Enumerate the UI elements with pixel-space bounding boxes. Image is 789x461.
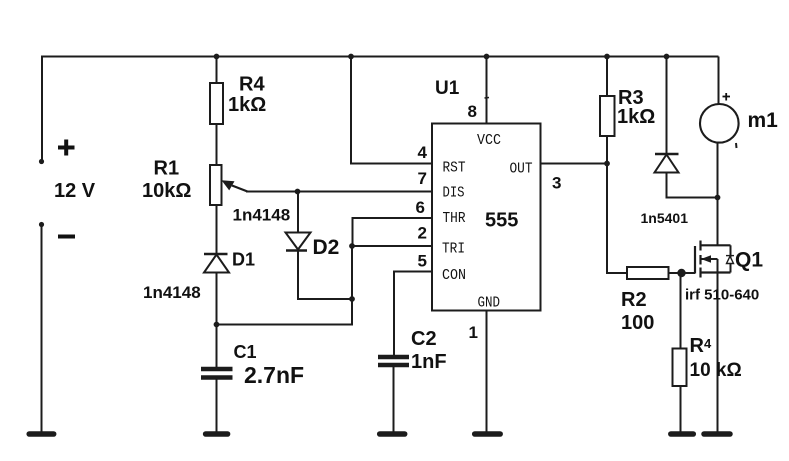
- svg-text:3: 3: [552, 174, 561, 193]
- svg-text:D2: D2: [313, 236, 340, 259]
- wire C1 to ground: [216, 379, 218, 432]
- resistor R4 body: [210, 83, 223, 124]
- svg-text:irf 510-640: irf 510-640: [685, 287, 759, 304]
- svg-text:C1: C1: [234, 342, 257, 362]
- svg-text:1kΩ: 1kΩ: [617, 106, 655, 128]
- wire left rail upper (battery +): [41, 56, 43, 162]
- svg-text:2.7nF: 2.7nF: [244, 362, 304, 388]
- svg-text:100: 100: [621, 312, 654, 334]
- wire R2 to gate: [669, 272, 696, 274]
- node C1 junction: [214, 322, 220, 328]
- svg-text:8: 8: [468, 102, 477, 121]
- potentiometer R1 wiper arrow: [222, 180, 248, 191]
- svg-text:DIS: DIS: [443, 185, 465, 202]
- Q1 body diode glyph: [726, 256, 734, 264]
- pin 8 wire tick: [485, 97, 490, 100]
- wire gate node down to R4b: [680, 273, 682, 349]
- op-amp U1 555 timer box: [432, 124, 541, 311]
- svg-text:THR: THR: [443, 210, 466, 227]
- capacitor C2: [378, 357, 409, 365]
- wire OUT node down to R2: [607, 164, 627, 274]
- node top rail / pin 8 junction: [484, 54, 490, 60]
- ground (R4b): [671, 431, 694, 437]
- svg-text:1nF: 1nF: [411, 351, 447, 373]
- wire RST net from top rail: [351, 57, 432, 164]
- motor m1: [700, 104, 739, 143]
- wire D2 cathode down and right: [298, 251, 352, 300]
- wire R4 bottom to R1: [216, 124, 218, 165]
- ground (C2): [380, 431, 405, 437]
- node top rail / 1n5401 junction: [664, 54, 670, 60]
- wire left rail lower (battery - to ground): [41, 225, 43, 432]
- wire 1n5401 anode to motor bottom: [667, 173, 718, 198]
- wire C2 to ground: [393, 365, 395, 432]
- wire R3 top: [606, 57, 608, 97]
- wire R4 top: [216, 57, 218, 84]
- svg-text:6: 6: [416, 198, 425, 217]
- svg-text:m1: m1: [748, 109, 779, 132]
- ground (C1): [206, 431, 228, 437]
- capacitor C1: [201, 369, 233, 378]
- svg-text:OUT: OUT: [510, 160, 533, 177]
- svg-text:R4: R4: [690, 335, 712, 357]
- potentiometer R1 body: [210, 165, 222, 205]
- wire DIS net (wiper to pin 7): [246, 191, 432, 193]
- node THR/TRI junction: [349, 243, 355, 249]
- node top rail / R4 junction: [214, 54, 220, 60]
- svg-text:U1: U1: [435, 78, 460, 99]
- svg-text:C2: C2: [411, 328, 437, 350]
- wire D2 junction down and left to C1 node: [217, 299, 353, 325]
- wire motor bottom to Q1 drain: [717, 144, 719, 246]
- svg-text:1n4148: 1n4148: [143, 283, 201, 302]
- node D2 bottom junction: [349, 296, 355, 302]
- diode 1n5401: [655, 154, 679, 173]
- node OUT / R3 junction: [604, 161, 610, 167]
- ground (Q1 source): [704, 431, 730, 437]
- wire D1 bottom to C1 node: [216, 273, 218, 326]
- node top rail / RST junction: [348, 54, 354, 60]
- svg-text:Q1: Q1: [735, 249, 763, 272]
- wire CON pin 5 stub: [394, 272, 432, 356]
- svg-text:5: 5: [418, 252, 427, 271]
- wire C1 node to capacitor: [216, 325, 218, 368]
- svg-text:10 kΩ: 10 kΩ: [690, 360, 742, 381]
- node battery - terminal: [39, 222, 44, 227]
- svg-text:R2: R2: [621, 289, 647, 311]
- wire top rail right end down to motor: [718, 57, 720, 104]
- diode D1: [204, 254, 229, 273]
- svg-text:R1: R1: [154, 158, 180, 180]
- ground (555 pin 1): [475, 431, 501, 437]
- svg-text:4: 4: [418, 143, 428, 162]
- node battery + terminal: [39, 159, 44, 164]
- transistor Q1 MOSFET: [695, 241, 731, 278]
- wire TRI pin 2 stub: [352, 245, 432, 247]
- svg-text:D1: D1: [232, 250, 255, 270]
- resistor R3 body: [600, 96, 615, 136]
- wire R3 bottom to OUT node: [606, 136, 608, 164]
- wire Q1 source to ground: [717, 273, 719, 433]
- motor + mark: [723, 93, 731, 101]
- svg-text:TRI: TRI: [442, 240, 465, 257]
- motor - mark: [735, 143, 738, 148]
- svg-text:VCC: VCC: [477, 132, 501, 149]
- wire R4b bottom to ground: [680, 386, 682, 432]
- node D2 top junction: [295, 189, 301, 195]
- wire GND pin 1 to ground: [486, 311, 488, 433]
- wire D2 anode: [297, 192, 299, 234]
- svg-text:1n5401: 1n5401: [641, 210, 689, 226]
- node top rail / R3 junction: [604, 54, 610, 60]
- ground (battery): [29, 431, 54, 437]
- svg-text:12 V: 12 V: [54, 180, 96, 202]
- wire VCC pin 8: [486, 57, 488, 124]
- svg-text:GND: GND: [478, 294, 501, 311]
- node motor bottom / diode junction: [715, 195, 721, 201]
- svg-text:RST: RST: [443, 160, 466, 177]
- svg-text:R4: R4: [239, 74, 265, 96]
- wire top rail: [41, 56, 719, 58]
- battery + symbol: [58, 140, 75, 156]
- resistor R4 (bottom right) body: [673, 349, 687, 387]
- node gate junction: [677, 269, 685, 277]
- wire R1 bottom to D1: [216, 205, 218, 254]
- svg-text:CON: CON: [442, 267, 466, 284]
- svg-text:7: 7: [418, 169, 427, 188]
- resistor R2 body: [627, 267, 669, 279]
- battery - symbol: [58, 235, 75, 239]
- wire OUT pin 3: [541, 163, 608, 165]
- wire 1n5401 cathode from top rail: [666, 57, 668, 155]
- wire TRI junction down to D2 junction: [351, 246, 353, 299]
- svg-text:555: 555: [485, 210, 518, 232]
- svg-text:10kΩ: 10kΩ: [142, 180, 191, 202]
- wire THR pin 6 stub: [353, 218, 433, 246]
- svg-text:2: 2: [418, 224, 427, 243]
- diode D2: [286, 233, 311, 251]
- svg-text:1kΩ: 1kΩ: [228, 94, 266, 116]
- svg-text:1: 1: [469, 323, 478, 342]
- svg-text:1n4148: 1n4148: [233, 205, 291, 224]
